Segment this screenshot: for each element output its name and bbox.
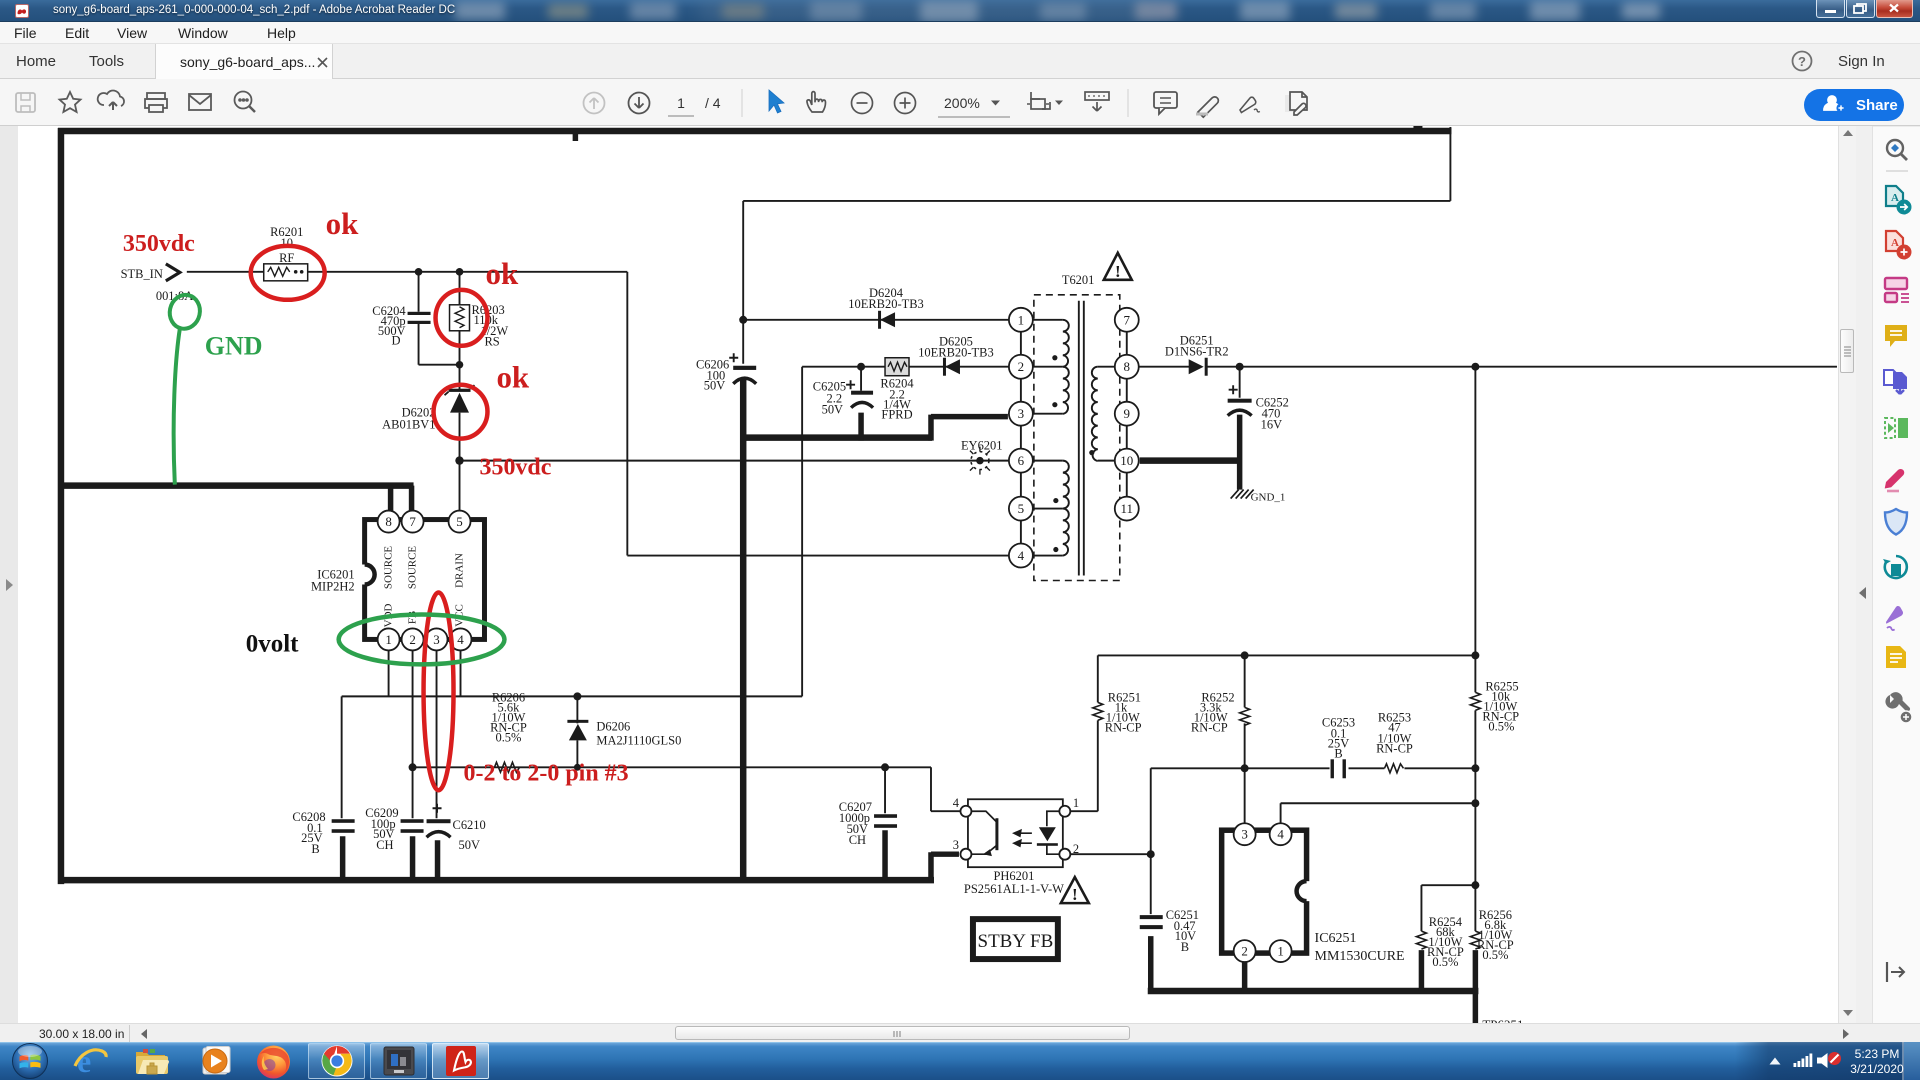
svg-text:3: 3 bbox=[1018, 406, 1024, 421]
svg-text:D: D bbox=[392, 334, 401, 348]
svg-text:2: 2 bbox=[1241, 944, 1247, 959]
svg-text:10ERB20-TB3: 10ERB20-TB3 bbox=[918, 346, 994, 360]
svg-text:STBY FB: STBY FB bbox=[978, 931, 1054, 952]
svg-text:50V: 50V bbox=[459, 838, 480, 852]
svg-text:1: 1 bbox=[1073, 796, 1079, 810]
svg-text:ok: ok bbox=[326, 206, 359, 241]
svg-text:3: 3 bbox=[1241, 827, 1247, 842]
svg-text:0.5%: 0.5% bbox=[1488, 719, 1514, 733]
svg-text:5: 5 bbox=[1018, 501, 1024, 516]
svg-text:7: 7 bbox=[409, 514, 416, 529]
svg-text:ok: ok bbox=[496, 360, 529, 395]
svg-text:DRAIN: DRAIN bbox=[454, 553, 466, 588]
svg-text:3: 3 bbox=[953, 838, 959, 852]
svg-text:MM1530CURE: MM1530CURE bbox=[1315, 949, 1405, 964]
svg-text:1: 1 bbox=[1277, 944, 1283, 959]
svg-text:0.5%: 0.5% bbox=[1482, 948, 1508, 962]
svg-text:IC6251: IC6251 bbox=[1315, 931, 1357, 946]
svg-text:?: ? bbox=[1798, 54, 1806, 69]
svg-text:D1NS6-TR2: D1NS6-TR2 bbox=[1165, 345, 1229, 359]
svg-text:11: 11 bbox=[1121, 501, 1133, 516]
svg-text:B: B bbox=[1181, 940, 1189, 954]
svg-text:D6206: D6206 bbox=[596, 719, 630, 733]
svg-text:2: 2 bbox=[1073, 842, 1079, 856]
svg-text:GND: GND bbox=[205, 332, 263, 361]
svg-text:16V: 16V bbox=[1261, 418, 1282, 432]
svg-text:50V: 50V bbox=[704, 379, 725, 393]
svg-text:EY6201: EY6201 bbox=[961, 439, 1003, 453]
svg-text:0volt: 0volt bbox=[246, 630, 299, 657]
svg-text:4: 4 bbox=[1277, 827, 1284, 842]
svg-text:1: 1 bbox=[677, 95, 685, 111]
svg-text:4: 4 bbox=[953, 796, 960, 810]
svg-text:2: 2 bbox=[1018, 359, 1024, 374]
svg-text:10ERB20-TB3: 10ERB20-TB3 bbox=[848, 297, 924, 311]
svg-text:8: 8 bbox=[385, 514, 391, 529]
svg-text:SOURCE: SOURCE bbox=[407, 546, 419, 590]
svg-text:RF: RF bbox=[279, 251, 294, 265]
svg-text:1: 1 bbox=[1018, 312, 1024, 327]
svg-text:9: 9 bbox=[1124, 406, 1130, 421]
svg-text:350vdc: 350vdc bbox=[479, 455, 551, 481]
svg-text:4: 4 bbox=[457, 632, 464, 647]
svg-text:C6210: C6210 bbox=[453, 818, 486, 832]
svg-text:7: 7 bbox=[1124, 312, 1131, 327]
svg-text:5: 5 bbox=[456, 514, 462, 529]
svg-text:6: 6 bbox=[1018, 453, 1025, 468]
svg-text:/ 4: / 4 bbox=[705, 95, 721, 111]
svg-text:50V: 50V bbox=[822, 403, 843, 417]
svg-text:MA2J1110GLS0: MA2J1110GLS0 bbox=[596, 733, 681, 747]
svg-text:MIP2H2: MIP2H2 bbox=[311, 579, 355, 593]
svg-text:0.5%: 0.5% bbox=[495, 730, 521, 744]
svg-text:GND_1: GND_1 bbox=[1251, 492, 1286, 504]
svg-text:RS: RS bbox=[484, 335, 499, 349]
svg-text:A: A bbox=[1891, 237, 1899, 249]
svg-text:1: 1 bbox=[385, 632, 391, 647]
svg-text:AB01BV1: AB01BV1 bbox=[382, 418, 435, 432]
svg-text:200%: 200% bbox=[944, 95, 980, 111]
svg-text:8: 8 bbox=[1124, 359, 1130, 374]
svg-text:RN-CP: RN-CP bbox=[1105, 720, 1142, 734]
svg-text:0-2 to 2-0 pin #3: 0-2 to 2-0 pin #3 bbox=[464, 760, 629, 786]
svg-text:2: 2 bbox=[409, 632, 415, 647]
svg-text:A: A bbox=[1891, 192, 1899, 204]
svg-text:350vdc: 350vdc bbox=[123, 231, 195, 257]
svg-text:CH: CH bbox=[849, 833, 866, 847]
svg-text:!: ! bbox=[1072, 885, 1078, 904]
svg-text:PS2561AL1-1-V-W: PS2561AL1-1-V-W bbox=[964, 882, 1064, 896]
svg-text:ok: ok bbox=[485, 256, 518, 291]
svg-text:0.5%: 0.5% bbox=[1432, 955, 1458, 969]
svg-text:SOURCE: SOURCE bbox=[383, 546, 395, 590]
svg-text:3: 3 bbox=[433, 632, 439, 647]
svg-text:Share: Share bbox=[1856, 97, 1898, 114]
svg-text:PH6201: PH6201 bbox=[993, 869, 1034, 883]
svg-text:10: 10 bbox=[1120, 453, 1133, 468]
svg-text:RN-CP: RN-CP bbox=[1376, 741, 1413, 755]
svg-text:STB_IN: STB_IN bbox=[121, 267, 163, 281]
svg-text:CH: CH bbox=[376, 838, 393, 852]
svg-text:4: 4 bbox=[1018, 548, 1025, 563]
svg-text:T6201: T6201 bbox=[1062, 273, 1095, 287]
svg-text:FPRD: FPRD bbox=[881, 408, 912, 422]
svg-text:B: B bbox=[1334, 746, 1342, 760]
svg-text:B: B bbox=[311, 842, 319, 856]
svg-text:!: ! bbox=[1115, 262, 1121, 281]
svg-text:RN-CP: RN-CP bbox=[1191, 720, 1228, 734]
